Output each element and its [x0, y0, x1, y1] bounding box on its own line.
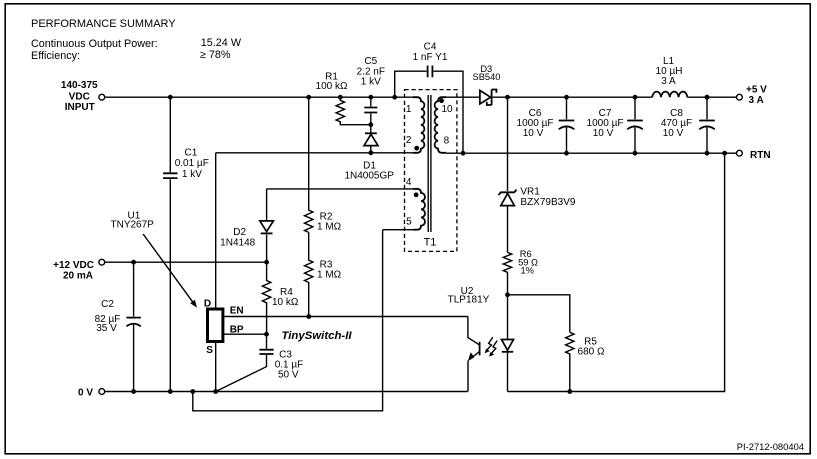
svg-text:15.24 W: 15.24 W [201, 37, 242, 49]
svg-text:C5: C5 [364, 56, 377, 67]
svg-text:8: 8 [444, 136, 450, 147]
svg-text:T1: T1 [424, 236, 437, 248]
node +5V terminal [737, 84, 768, 105]
svg-text:RTN: RTN [750, 150, 771, 161]
node junction dots on HV rail [168, 95, 173, 100]
svg-text:SB540: SB540 [473, 72, 501, 82]
svg-text:C1: C1 [185, 148, 198, 159]
capacitor C6 [517, 97, 575, 153]
resistor R5 [566, 332, 605, 391]
wire secondary to D3 [446, 96, 480, 98]
node RTN terminal [737, 150, 771, 161]
svg-text:5: 5 [406, 217, 412, 228]
wire bias return sub-rail [193, 230, 383, 411]
wire EN [223, 316, 468, 318]
svg-text:C6: C6 [529, 108, 542, 119]
transformer T1 core [428, 95, 431, 232]
svg-text:1: 1 [406, 104, 412, 115]
wire secondary bottom return [508, 153, 725, 391]
capacitor C5 [357, 56, 385, 125]
capacitor C4 [395, 42, 463, 154]
svg-text:TNY267P: TNY267P [111, 220, 155, 231]
diode D2 [220, 189, 273, 262]
wire +5V rail [493, 96, 737, 98]
wire S pin to 0V [215, 342, 217, 392]
svg-text:1 kV: 1 kV [182, 169, 202, 180]
svg-text:VR1: VR1 [520, 186, 540, 197]
svg-text:TLP181Y: TLP181Y [448, 295, 490, 306]
svg-text:3 A: 3 A [749, 95, 764, 106]
wire bias pin5 [383, 229, 417, 231]
svg-text:PI-2712-080404: PI-2712-080404 [737, 441, 804, 452]
resistor R6 [503, 249, 538, 295]
svg-text:C7: C7 [599, 108, 612, 119]
svg-text:D2: D2 [233, 227, 246, 238]
svg-text:PERFORMANCE SUMMARY: PERFORMANCE SUMMARY [31, 18, 176, 30]
opto light arrows [485, 337, 498, 356]
resistor R1 [316, 72, 371, 125]
wire +12V rail [105, 261, 267, 263]
node VDC INPUT terminal [61, 80, 105, 113]
svg-text:INPUT: INPUT [65, 102, 95, 113]
transformer bias winding pins 4-5 [406, 177, 425, 230]
svg-text:C8: C8 [670, 108, 683, 119]
svg-text:0.01 µF: 0.01 µF [175, 158, 209, 169]
svg-text:EN: EN [230, 305, 244, 316]
svg-text:10: 10 [441, 104, 453, 115]
svg-text:4: 4 [406, 177, 412, 188]
svg-text:680 Ω: 680 Ω [578, 347, 605, 358]
svg-text:1N4148: 1N4148 [220, 238, 255, 249]
transistor U2 phototransistor [468, 317, 480, 392]
svg-text:20 mA: 20 mA [63, 271, 93, 282]
svg-text:1%: 1% [520, 265, 533, 275]
svg-text:0 V: 0 V [78, 387, 93, 398]
svg-text:S: S [206, 345, 213, 356]
capacitor C2 [95, 262, 141, 391]
svg-text:35 V: 35 V [96, 323, 117, 334]
svg-text:VDC: VDC [69, 91, 90, 102]
svg-text:140-375: 140-375 [61, 80, 98, 91]
opto U2 LED [448, 286, 514, 391]
wire top HV rail [105, 96, 418, 98]
inductor L1 [652, 56, 687, 97]
zener VR1 [499, 186, 576, 252]
capacitor C7 [587, 97, 643, 153]
diode D1 [344, 125, 394, 182]
capacitor C3 [216, 334, 304, 391]
capacitor C8 [661, 97, 715, 153]
svg-text:1N4005GP: 1N4005GP [344, 170, 394, 181]
svg-text:50 V: 50 V [278, 369, 299, 380]
svg-text:3 A: 3 A [661, 76, 676, 87]
wire bias pin4 [267, 188, 418, 190]
svg-text:C2: C2 [101, 299, 114, 310]
svg-text:TinySwitch-II: TinySwitch-II [282, 330, 353, 342]
resistor R3 [305, 232, 342, 316]
svg-text:C3: C3 [279, 349, 292, 360]
wire D pin to primary [215, 153, 217, 309]
svg-text:1 kV: 1 kV [361, 76, 381, 87]
svg-text:100 kΩ: 100 kΩ [316, 81, 348, 92]
svg-text:Efficiency:: Efficiency: [31, 50, 80, 62]
wire U1 label arrow [143, 234, 197, 308]
node +12VDC terminal [53, 259, 105, 281]
svg-text:10 kΩ: 10 kΩ [272, 297, 299, 308]
transformer T1 dashed box [405, 90, 457, 252]
resistor R2 [305, 97, 342, 232]
wire node to R5 [508, 295, 570, 333]
svg-text:D: D [204, 298, 211, 309]
svg-text:1 nF Y1: 1 nF Y1 [413, 52, 448, 63]
diode D3 SB540 [473, 64, 501, 105]
PERFORMANCE SUMMARY title [31, 18, 242, 62]
node 0V terminal [78, 387, 105, 398]
svg-text:10 V: 10 V [593, 128, 614, 139]
svg-text:≥ 78%: ≥ 78% [200, 49, 231, 61]
svg-text:2: 2 [406, 135, 412, 146]
svg-text:10 V: 10 V [663, 128, 684, 139]
transformer secondary winding pins 10-8 [435, 97, 453, 153]
capacitor C1 [163, 97, 209, 391]
wire 0V rail [105, 391, 468, 393]
wire RTN rail [446, 152, 737, 154]
transformer primary winding pins 1-2 [406, 97, 424, 153]
wire primary bottom rail to D pin [216, 152, 418, 154]
svg-text:+12 VDC: +12 VDC [53, 260, 94, 271]
op-amp U1 TNY267P body [111, 210, 244, 356]
svg-text:1 MΩ: 1 MΩ [317, 270, 342, 281]
resistor R4 [262, 262, 299, 334]
svg-text:10 V: 10 V [523, 128, 544, 139]
svg-text:Continuous Output Power:: Continuous Output Power: [31, 38, 158, 50]
svg-text:C4: C4 [424, 42, 437, 53]
svg-text:+5 V: +5 V [746, 84, 767, 95]
svg-text:BZX79B3V9: BZX79B3V9 [520, 197, 575, 208]
svg-text:1 MΩ: 1 MΩ [317, 222, 342, 233]
wire D3 node down through RTN crossing [507, 97, 509, 191]
wire BP [223, 333, 267, 335]
